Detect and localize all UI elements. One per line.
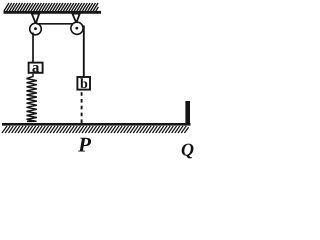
block b	[77, 77, 90, 92]
svg-text:a: a	[32, 60, 40, 76]
pulley left	[30, 23, 42, 35]
pulley bracket left	[32, 14, 39, 24]
spring	[27, 74, 37, 122]
svg-text:b: b	[80, 77, 88, 92]
block a	[29, 60, 43, 76]
ground	[2, 124, 191, 133]
string from left pulley to block a	[32, 33, 34, 63]
pulley right	[71, 22, 83, 34]
svg-text:P: P	[77, 133, 91, 157]
string from right pulley to block b	[83, 26, 85, 77]
svg-text:Q: Q	[181, 140, 194, 160]
dashed line from block b to P	[81, 92, 83, 123]
pulley bracket right	[72, 14, 79, 23]
wall stop at Q	[185, 101, 190, 125]
ceiling	[4, 3, 102, 12]
string horizontal between pulleys	[37, 23, 74, 25]
